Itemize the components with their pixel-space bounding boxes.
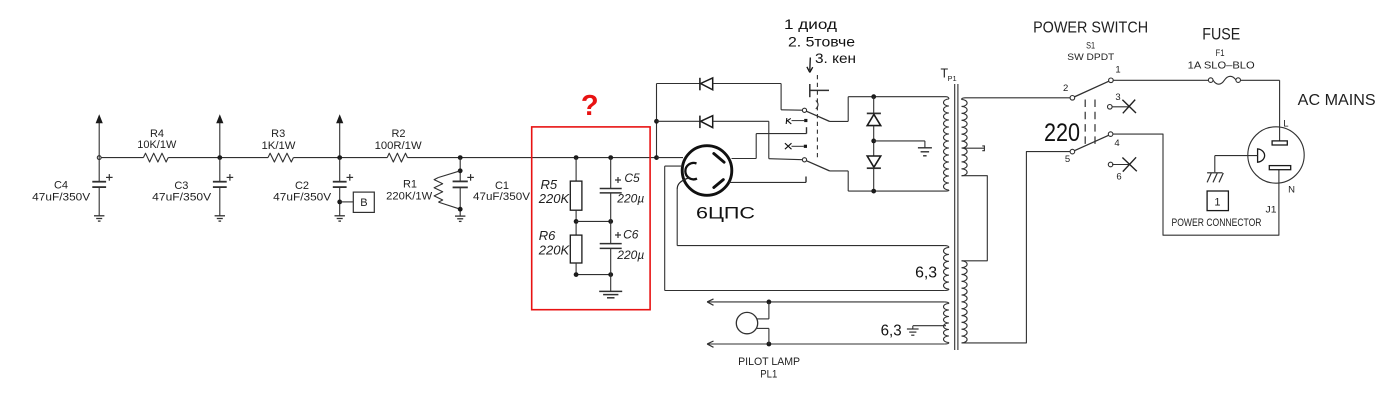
ground below C1: [455, 215, 465, 217]
wire: D1 to switch pole 1: [780, 84, 782, 110]
ground below C3: [215, 215, 225, 217]
switch pin 5: [1070, 149, 1075, 154]
svg-text:220K: 220K: [538, 191, 571, 206]
wire: D2 down to pole 2 line: [768, 121, 770, 158]
transformer primary winding lower: [962, 261, 968, 343]
tube cathode arc (hand drawn): [685, 163, 697, 179]
svg-text:B: B: [360, 197, 367, 209]
AC mains receptacle circle: [1248, 127, 1304, 183]
node: lamp bottom: [767, 342, 772, 347]
diode D3 (upper): [873, 97, 875, 114]
svg-text:P1: P1: [948, 74, 957, 83]
wire: branch up at C2 with arrow: [339, 123, 341, 158]
power connector pin box 1: [1207, 191, 1228, 211]
node: C3 bus junction: [217, 155, 222, 160]
primary winding jog: [962, 176, 988, 261]
svg-text:1: 1: [1214, 197, 1220, 209]
switch pin 6 (unused, X): [1108, 162, 1113, 167]
wire: branch up at C3 with arrow: [219, 123, 221, 158]
ground at rectifier mid: [918, 147, 932, 149]
wire: winding2 center tap to ground: [913, 325, 946, 327]
svg-text:POWER CONNECTOR: POWER CONNECTOR: [1172, 217, 1262, 229]
svg-text:?: ?: [581, 90, 599, 122]
transformer core: [954, 84, 956, 350]
svg-text:5: 5: [1065, 154, 1070, 165]
node: C1 top: [458, 168, 463, 173]
diode D2 (lower): [657, 120, 700, 122]
svg-text:N: N: [1288, 184, 1295, 195]
capacitor C1: [453, 180, 468, 182]
tube anode stroke top-right: [714, 154, 724, 163]
svg-text:1: 1: [1115, 64, 1120, 75]
fuse F1: [1208, 78, 1213, 83]
L slot: [1272, 141, 1287, 145]
svg-text:R3: R3: [271, 128, 285, 140]
resistor R5 (box style): [575, 158, 577, 182]
node: C5 bus junction: [608, 155, 613, 160]
wire: branch up at C4 with arrow: [98, 123, 100, 158]
selector pole 1 pivot: [802, 108, 806, 112]
svg-text:4: 4: [1114, 138, 1119, 149]
resistor R3: [268, 153, 293, 162]
dashed link squiggle: [816, 101, 818, 110]
switch dashed link: [1084, 100, 1086, 149]
svg-text:FUSE: FUSE: [1202, 26, 1240, 44]
switch lever 1: [1074, 81, 1109, 97]
selector mechanical dashed link: [816, 75, 818, 159]
svg-text:3. кен: 3. кен: [815, 51, 856, 66]
wire: pole2 to rectifier bottom rail: [830, 170, 849, 172]
wire: D pin to chassis: [1215, 155, 1258, 157]
wire: bus to C1 top: [459, 158, 461, 181]
wire: divider mid link to caps: [576, 220, 611, 222]
node: R5/R6 junction: [574, 219, 579, 224]
svg-text:R6: R6: [539, 228, 556, 243]
node: C5/C6 junction: [608, 219, 613, 224]
svg-text:3: 3: [1115, 92, 1120, 103]
svg-text:220K/1W: 220K/1W: [386, 190, 433, 202]
resistor R4: [143, 153, 168, 162]
transformer 6.3V winding 2 (pilot/heaters): [945, 302, 949, 304]
wire: main B+ bus: [99, 157, 143, 159]
svg-text:C3: C3: [174, 180, 188, 192]
svg-text:220µ: 220µ: [616, 248, 644, 262]
capacitor C2: [339, 158, 341, 181]
wire: cathode tail curl: [677, 178, 690, 190]
tube anode stroke bottom-right: [714, 180, 724, 188]
wire: D2 line to pole 2 pivot: [769, 159, 803, 160]
capacitor C3: [219, 158, 221, 181]
switch pin 1: [1109, 78, 1114, 83]
svg-text:47uF/350V: 47uF/350V: [32, 191, 91, 203]
wire: heater wire 2 down: [676, 189, 678, 246]
resistor R1 (parallel with C1): [438, 171, 460, 178]
svg-text:220: 220: [1044, 119, 1080, 147]
annotation arrow down to switch: [809, 58, 812, 71]
node: chain bottom: [871, 189, 876, 194]
contact: pole1 lower fixed contact tick: [806, 127, 808, 133]
svg-text:R2: R2: [391, 128, 405, 140]
ground below C2: [335, 215, 345, 217]
node: C1 bottom: [458, 207, 463, 212]
wire: fuse to L: [1241, 79, 1280, 81]
ground D pin: [1258, 149, 1265, 162]
node: cap chain bottom: [608, 272, 613, 277]
ground below divider: [599, 290, 622, 292]
switch pin 4: [1108, 132, 1113, 137]
svg-text:PILOT LAMP: PILOT LAMP: [738, 356, 800, 368]
svg-text:R1: R1: [403, 179, 417, 191]
selector pole 1 lever: [806, 111, 829, 121]
wire: C5 to C6: [610, 193, 612, 244]
svg-text:POWER SWITCH: POWER SWITCH: [1033, 19, 1148, 36]
node: chain top: [871, 94, 876, 99]
svg-text:S1: S1: [1086, 41, 1095, 52]
wire: primary top to switch pin2: [965, 97, 1070, 99]
switch lever 2: [1074, 135, 1108, 150]
svg-text:220µ: 220µ: [616, 192, 644, 206]
node: lamp top: [767, 300, 772, 305]
svg-text:1A SLO–BLO: 1A SLO–BLO: [1188, 60, 1255, 72]
svg-text:L: L: [1283, 119, 1288, 130]
transformer primary winding upper: [962, 98, 966, 100]
node: R5 bus junction: [574, 155, 579, 160]
wire: tube heater pin stub left: [665, 165, 683, 167]
svg-text:47uF/350V: 47uF/350V: [473, 191, 531, 203]
svg-text:PL1: PL1: [760, 368, 777, 380]
wire: pole1 to rectifier top rail: [830, 120, 849, 122]
node: chain mid: [871, 139, 876, 144]
transformer 6.3V winding 1 (tube heater): [945, 246, 949, 248]
N slot: [1269, 166, 1290, 170]
contact: selector top T-bar: [809, 84, 811, 97]
node: C2 bus junction: [337, 155, 342, 160]
svg-text:6ЦПС: 6ЦПС: [696, 204, 755, 223]
diode D4 (lower): [867, 156, 881, 167]
wire: 6.3V rail 2 with arrow: [707, 343, 945, 345]
wire: 6.3V rail 1 with arrow: [707, 301, 945, 303]
primary tap stub with hook: [963, 147, 985, 149]
svg-text:100R/1W: 100R/1W: [375, 140, 423, 152]
contact: unused contact X mark: [792, 145, 804, 147]
switch pin 3 (unused, X): [1108, 105, 1113, 110]
wire: bus into tube: [657, 157, 684, 159]
svg-text:2. 5товче: 2. 5товче: [788, 35, 855, 50]
wire: mid tap to ground: [874, 140, 925, 142]
diode D1 (top): [657, 83, 700, 85]
node: D2 junction: [654, 119, 659, 124]
wire: pin4 to N: [1113, 134, 1279, 235]
svg-text:6,3: 6,3: [915, 265, 937, 282]
wire: pin1 to fuse: [1113, 79, 1208, 81]
switch pin 2: [1070, 96, 1075, 101]
wire: heater wire 1 down: [664, 166, 666, 290]
svg-text:220K: 220K: [538, 243, 571, 258]
connector B box: [353, 192, 374, 212]
svg-text:C1: C1: [495, 180, 509, 192]
resistor R2: [387, 153, 407, 162]
wire: R6 bottom to cap bottom: [575, 263, 577, 275]
capacitor C5: [610, 158, 612, 189]
ground at 6.3V winding tap: [907, 328, 919, 330]
wire: R5-R6 link: [575, 210, 577, 235]
wire: to ground: [610, 248, 612, 291]
wire: vertical from bus to diodes: [656, 84, 658, 158]
svg-text:C6: C6: [623, 228, 639, 242]
svg-text:47uF/350V: 47uF/350V: [273, 192, 332, 204]
wire: C2 to B box: [340, 201, 354, 203]
svg-text:F1: F1: [1216, 48, 1225, 59]
svg-text:1 диод: 1 диод: [784, 17, 837, 32]
node: C2 bottom junction to B: [337, 200, 342, 205]
ground below C4: [94, 215, 104, 217]
svg-text:C2: C2: [295, 180, 309, 192]
node: bus start open terminal: [97, 156, 101, 160]
chassis ground symbol: [1207, 172, 1222, 174]
svg-text:6,3: 6,3: [881, 323, 902, 340]
node: bus/tube junction: [654, 155, 659, 160]
resistor R6 (box style): [570, 235, 582, 263]
node: C1/R1 bus junction: [458, 155, 463, 160]
svg-text:J1: J1: [1266, 205, 1277, 216]
wire: primary bottom to switch pin5: [962, 152, 1071, 343]
red highlight box (added section): [532, 127, 650, 310]
svg-text:SW DPDT: SW DPDT: [1067, 52, 1114, 63]
pilot lamp PL1: [736, 312, 757, 333]
svg-text:6: 6: [1116, 172, 1121, 183]
contact: unused contact k mark: [792, 120, 805, 122]
capacitor C6: [600, 243, 622, 245]
svg-text:47uF/350V: 47uF/350V: [152, 192, 212, 204]
svg-text:R4: R4: [150, 128, 164, 140]
wire: tube anode out right: [732, 158, 757, 160]
selector pole 2 pivot: [802, 158, 806, 162]
wire: tube lower-right to pole2 fixed contact: [729, 181, 806, 183]
svg-text:C4: C4: [54, 179, 68, 191]
rectifier tube V1 (hand drawn): [682, 146, 732, 196]
capacitor C4: [98, 158, 100, 181]
svg-text:10K/1W: 10K/1W: [137, 139, 177, 151]
svg-text:AC MAINS: AC MAINS: [1298, 92, 1376, 109]
svg-text:C5: C5: [624, 171, 640, 185]
selector pole 2 lever: [806, 161, 829, 171]
svg-text:1K/1W: 1K/1W: [262, 140, 297, 152]
svg-text:R5: R5: [541, 177, 558, 192]
svg-text:2: 2: [1063, 83, 1068, 94]
transformer HV secondary winding: [946, 97, 949, 99]
